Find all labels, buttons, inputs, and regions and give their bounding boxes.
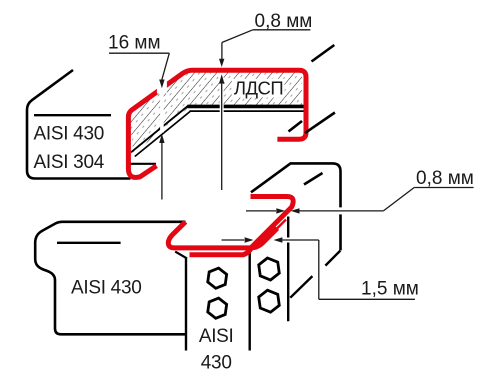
svg-text:ЛДСП: ЛДСП (234, 78, 283, 99)
svg-text:AISI 430: AISI 430 (71, 278, 141, 299)
svg-text:AISI 304: AISI 304 (34, 152, 105, 173)
svg-text:AISI 430: AISI 430 (34, 124, 104, 145)
svg-text:0,8 мм: 0,8 мм (255, 11, 313, 32)
svg-text:0,8 мм: 0,8 мм (416, 168, 474, 189)
svg-text:16 мм: 16 мм (108, 33, 161, 54)
svg-text:AISI: AISI (199, 326, 234, 347)
svg-text:430: 430 (201, 352, 232, 373)
svg-text:1,5 мм: 1,5 мм (361, 279, 419, 300)
